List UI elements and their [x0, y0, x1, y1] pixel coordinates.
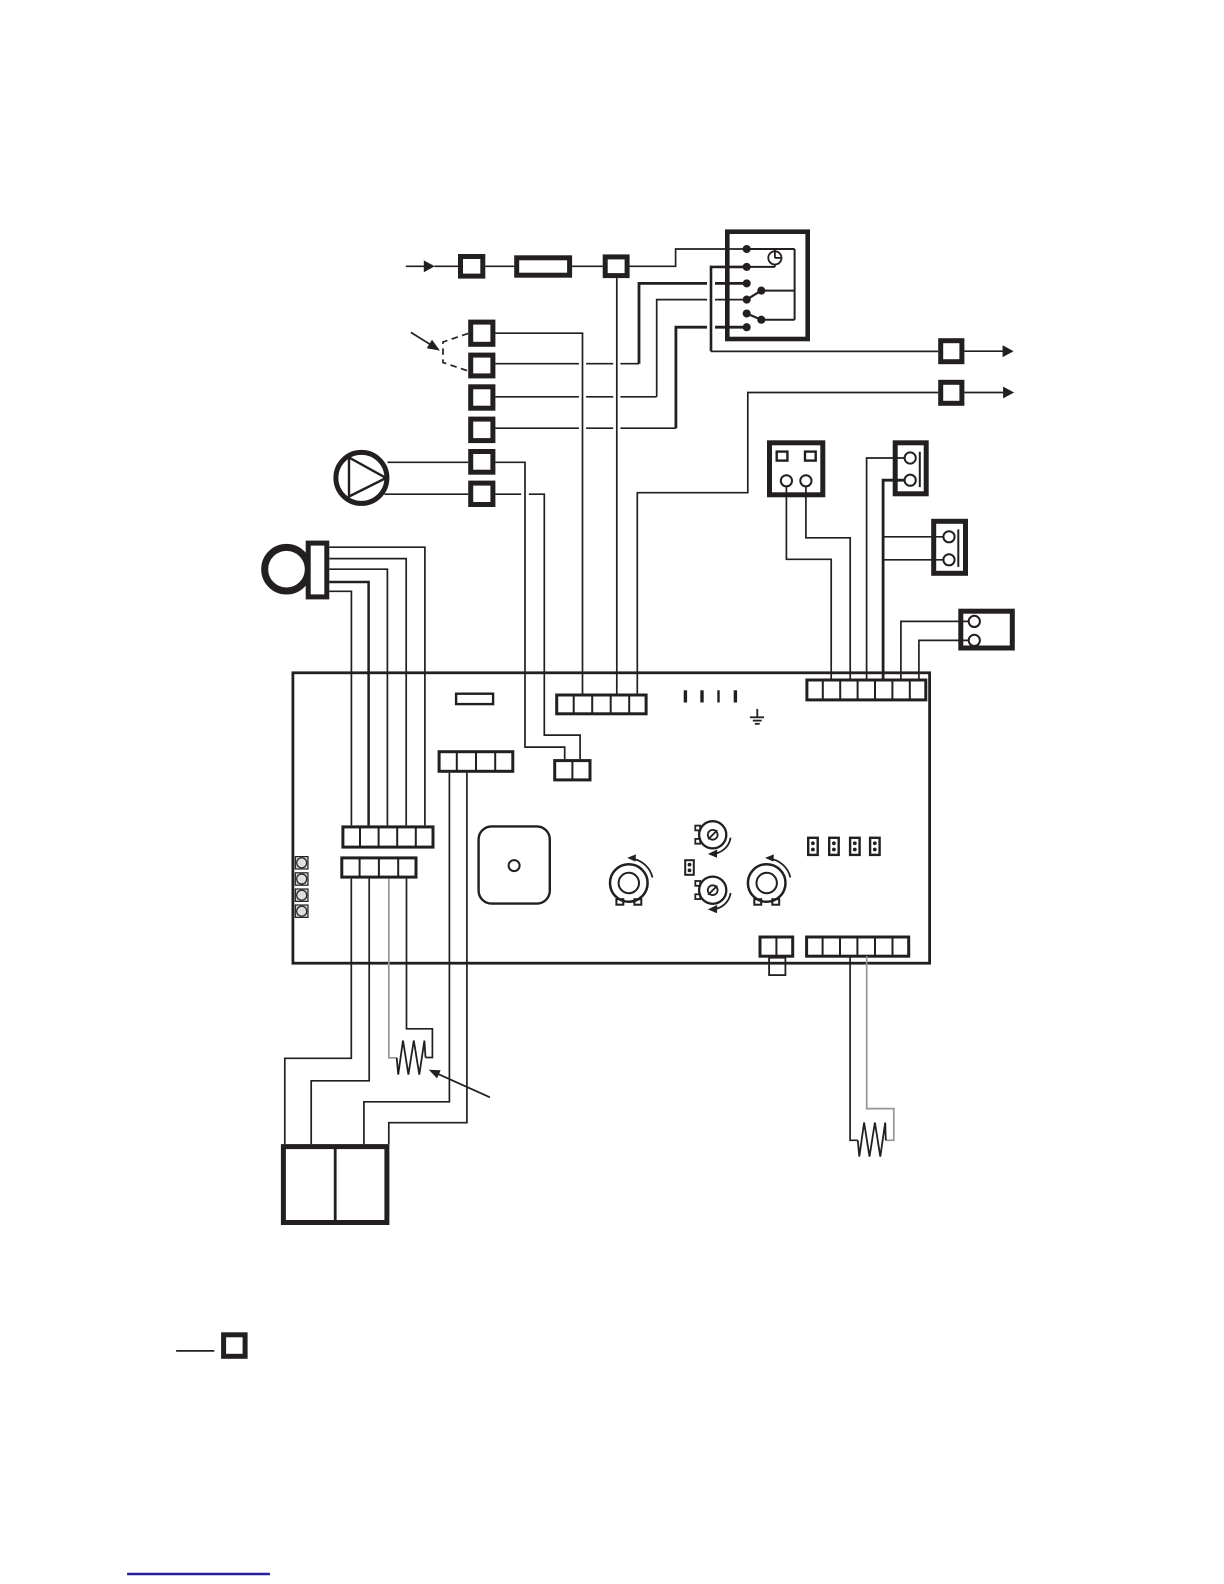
- terminal block column square S2: [471, 355, 493, 376]
- timer / programmer box U1: [727, 232, 807, 339]
- wire lamp w5 to board row1 cell1: [329, 591, 351, 825]
- wire B1 pin2 to mains connector cell3: [806, 486, 850, 678]
- trimmer pot P2 (upper): [695, 821, 730, 858]
- jumper J3: [850, 838, 860, 855]
- timer internal bus vertical: [794, 249, 796, 320]
- timer switch contact a: [757, 287, 765, 295]
- timer pin 6: [743, 323, 751, 331]
- wire lamp w1 to board row1 cell5: [329, 547, 425, 825]
- boiler sensor resistor R1: [397, 1041, 426, 1075]
- board pin marks: [684, 690, 737, 702]
- output square O2: [941, 382, 962, 403]
- board row2 4-pin connector CN6: [342, 858, 416, 877]
- potentiometer P4 (right knob): [748, 854, 791, 904]
- timer pin 5: [743, 309, 751, 317]
- wire CN8 (grey) to screed sensor right leg: [867, 956, 894, 1140]
- wire lamp w2 to board row1 cell4: [329, 559, 406, 826]
- timer switch arm pin5-b: [747, 314, 762, 320]
- fuse F1: [517, 258, 570, 275]
- wire row2 pin3 (grey) to boiler sensor: [389, 879, 397, 1058]
- callout arrow to boiler sensor: [429, 1070, 490, 1098]
- timer switch arm pin4-a: [747, 291, 762, 300]
- timer pin 1: [743, 245, 751, 253]
- wire terminal L to fuse: [485, 265, 514, 267]
- callout arrow to S1/S2: [411, 332, 440, 350]
- room thermostat box B1: [770, 443, 823, 495]
- limit thermostat box B3: [934, 521, 966, 573]
- frost thermostat box B2: [895, 443, 926, 494]
- terminal block column square S1: [471, 322, 493, 344]
- board LED D3: [295, 889, 308, 901]
- wire CN3 pin2 to junction box right: [389, 773, 467, 1144]
- wire pump bottom to S6: [385, 493, 469, 495]
- board 5-pin connector CN1: [557, 695, 646, 714]
- timer pin 2: [743, 263, 751, 271]
- wire output O2 to board strip (down-left route): [637, 393, 938, 694]
- jumper J4: [870, 838, 880, 855]
- wire row2 pin1 to junction box left: [285, 879, 352, 1145]
- timer pin 4: [743, 296, 751, 304]
- footer blue rule: [127, 1573, 270, 1576]
- board 2-pin pump connector CN4: [555, 761, 590, 780]
- wire CN8 to screed sensor left leg: [850, 956, 858, 1140]
- board jumper rectangle: [456, 694, 493, 704]
- jumper J1: [808, 838, 818, 855]
- board row1 5-pin connector CN5: [343, 827, 433, 847]
- fuse holder stub: [769, 958, 785, 975]
- output arrow O1: [964, 345, 1013, 357]
- main control board PCB: [293, 673, 930, 963]
- wire terminal N to timer pin1: [630, 249, 747, 266]
- potentiometer P1 (left knob): [610, 854, 653, 904]
- timer clock symbol: [768, 249, 781, 267]
- wire B4 pin1 to mains connector cell6: [901, 621, 969, 678]
- terminal block column square S3: [471, 387, 493, 408]
- wire pump top to S5: [388, 461, 469, 463]
- mains input arrow: [406, 260, 435, 272]
- terminal block column square S5: [471, 452, 493, 473]
- jumper J0: [685, 860, 694, 875]
- wire lamp w3 to board row1 cell3: [329, 569, 387, 825]
- legend wire sample: [176, 1350, 214, 1352]
- wire bus to B3 pin1: [883, 536, 943, 538]
- board LED D1: [295, 857, 308, 869]
- wire row2 pin4 to boiler sensor right leg: [407, 879, 433, 1058]
- wire B2 pin2 common bus to mains connector cell5: [883, 480, 905, 678]
- pump P1: [336, 452, 387, 503]
- wire bus to B3 pin2: [883, 559, 943, 561]
- trimmer pot P3 (lower): [695, 877, 730, 914]
- ignition transformer / LED lamp: [265, 543, 327, 597]
- terminal block column square S4: [471, 419, 493, 441]
- legend terminal square: [224, 1335, 246, 1357]
- board bottom 2-pin connector CN7: [760, 937, 793, 956]
- wire S6 to board 2pin connector right (gap at crossing): [495, 494, 580, 759]
- timer switch contact b: [757, 316, 765, 324]
- board LED D2: [295, 873, 308, 885]
- output arrow O2: [964, 387, 1014, 399]
- board LED D4: [295, 905, 308, 917]
- wire row2 pin2 to junction box: [311, 879, 369, 1145]
- dashed bracket S1-S2: [443, 333, 468, 371]
- wire CN3 pin1 to junction box: [364, 773, 450, 1144]
- jumper J2: [829, 838, 839, 855]
- terminal block column square S6: [471, 483, 493, 504]
- wire S2 to timer pin3 (with crossover gaps): [495, 283, 746, 363]
- wire terminal N down to board strip cell4: [616, 278, 618, 693]
- output square O1: [941, 341, 962, 362]
- switch box B4: [961, 611, 1013, 648]
- wire S3 to timer pin4 (with crossover gaps): [495, 300, 746, 397]
- wire mains to terminal L: [435, 265, 459, 267]
- timer internal wire pin1 to bus: [747, 248, 795, 250]
- timer internal wire contact b to bus: [761, 319, 794, 321]
- timer internal wire contact a to bus: [761, 290, 794, 292]
- wire B2 pin1 to mains connector cell4: [867, 458, 905, 679]
- terminal N (second square): [605, 257, 627, 276]
- timer pin 3: [743, 279, 751, 287]
- wire S1 to board strip cell2: [495, 333, 582, 693]
- wire S5 to board 2pin connector left: [495, 462, 564, 759]
- wire fuse to terminal N: [572, 265, 603, 267]
- wire lamp w4 to board row1 cell2: [329, 582, 368, 825]
- board mains 7-pin connector CN2: [807, 680, 926, 700]
- board bottom 6-pin connector CN8: [807, 937, 909, 956]
- wire B4 pin2 to mains connector cell7: [919, 640, 969, 678]
- wire S4 to timer pin6 (with crossover gaps): [495, 327, 746, 428]
- screed sensor resistor R2: [858, 1123, 886, 1157]
- board 4-pin connector CN3: [439, 752, 513, 772]
- timer internal wire pin2 to clock: [747, 266, 775, 268]
- wire timer pin2 feed (left vertical) and output to pump-live square: [711, 267, 747, 352]
- ground symbol: [750, 709, 764, 724]
- junction box (gas valve): [283, 1147, 387, 1223]
- relay K1 (rounded square): [479, 826, 550, 903]
- terminal L (input square): [461, 257, 483, 277]
- wire B1 pin1 to mains connector cell2: [786, 486, 831, 678]
